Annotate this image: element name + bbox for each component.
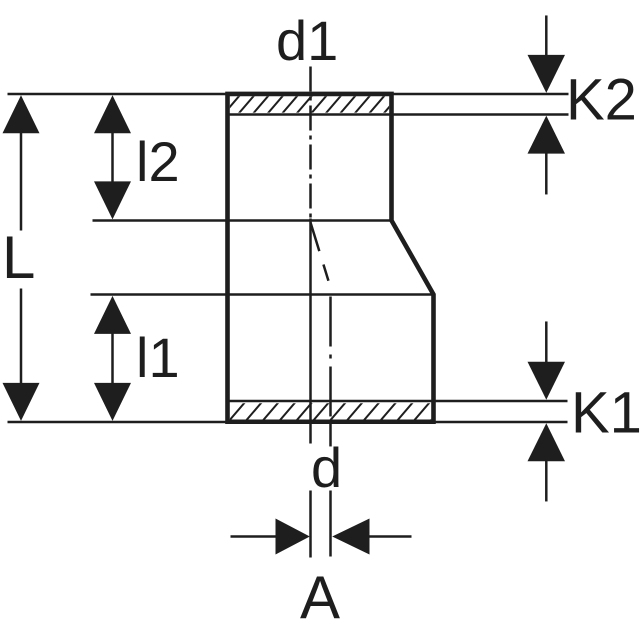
dimension K1 lower arrowhead xyxy=(528,423,566,461)
dimension A right arrow line xyxy=(369,535,412,538)
l1 top reference line / cone end xyxy=(91,293,434,296)
top weld hatching xyxy=(223,94,401,115)
svg-text:L: L xyxy=(2,224,35,291)
dimension L bottom arrowhead xyxy=(3,383,40,421)
dimension K2 lower arrowhead xyxy=(528,116,566,154)
dimension l2 top arrowhead xyxy=(94,95,131,133)
svg-text:l2: l2 xyxy=(136,130,180,193)
dimension l1 bottom arrowhead xyxy=(94,383,131,421)
centerline of bottom pipe (d axis), dash-dot xyxy=(329,296,332,420)
top reference line (L top / K2 upper) xyxy=(8,93,569,96)
dimension l2 bottom arrowhead xyxy=(94,181,131,219)
extension line of top axis down to A dimension xyxy=(309,218,312,443)
svg-text:K2: K2 xyxy=(566,68,637,133)
dimension l1 top arrowhead xyxy=(94,296,131,334)
svg-text:d: d xyxy=(311,436,342,499)
dimension l2 arrow line xyxy=(111,131,114,186)
dimension K2 lower arrow line xyxy=(545,152,548,194)
dimension K1 upper arrow line xyxy=(545,321,548,362)
centerline of top pipe (d1 axis), dash-dot xyxy=(309,66,312,218)
svg-text:A: A xyxy=(300,564,340,631)
reducer body outline xyxy=(228,94,434,422)
dimension A left arrowhead xyxy=(276,518,310,554)
dimension A right arrowhead xyxy=(332,518,369,554)
bottom reference line (L bottom / K1 lower) xyxy=(8,421,568,424)
dimension l1 arrow line xyxy=(111,333,114,384)
dimension K1 upper arrowhead xyxy=(528,362,566,400)
svg-text:l1: l1 xyxy=(136,326,180,389)
svg-text:K1: K1 xyxy=(571,381,640,446)
centerline transition (eccentric offset), dashed slant xyxy=(311,222,331,287)
K1 upper reference line / bottom weld band top xyxy=(230,400,568,403)
l2 bottom reference line / cone start xyxy=(93,219,392,222)
K2 lower reference line / top weld band bottom xyxy=(228,113,569,116)
dimension K1 lower arrow line xyxy=(545,459,548,501)
dimension K2 upper arrow line xyxy=(545,15,548,57)
dimension L top arrowhead xyxy=(3,95,40,133)
svg-text:d1: d1 xyxy=(276,9,338,72)
extension line of bottom axis down to A dimension xyxy=(329,421,332,446)
bottom weld hatching xyxy=(229,400,449,421)
dimension A left arrow line xyxy=(231,535,279,538)
dimension K2 upper arrowhead xyxy=(528,55,566,93)
dimension L arrow line xyxy=(20,131,23,230)
